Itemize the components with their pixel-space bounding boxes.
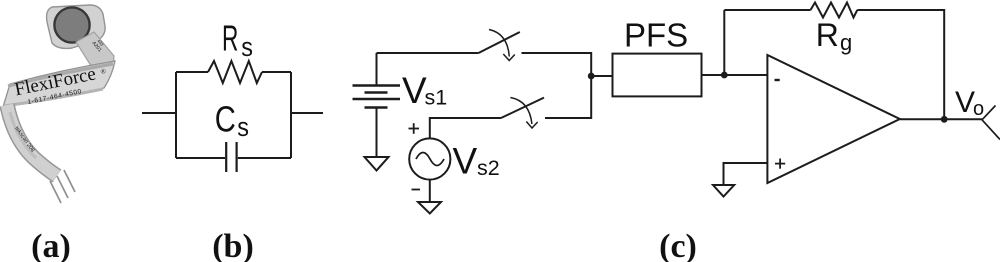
battery Vs1 [353,53,401,157]
capacitor Cs [226,142,236,172]
wire: PFS to op-amp inverting input [702,74,768,76]
svg-text:C: C [215,99,236,140]
sensor sensing disc [54,7,89,42]
svg-text:g: g [840,30,852,55]
wire: loop top-right segment [262,71,291,73]
wire: loop bottom-right segment [238,157,291,159]
label Cs [215,99,249,143]
wire: loop top-left segment [176,71,208,73]
sensor logo text FlexiForce [13,63,107,100]
wire: non-inverting input to ground [724,163,768,185]
wire: battery to switch S1 [377,52,479,54]
wire: output fork lower [982,120,1000,140]
label Vs2 [453,141,500,182]
sensor neck band with model text [76,32,114,69]
node: feedback tap [721,72,728,79]
svg-text:(b): (b) [212,228,254,262]
wire: switch S1 to junction [522,53,592,76]
wire: feedback top left segment [724,9,810,11]
svg-text:(a): (a) [31,228,71,262]
ground at non-inverting input [713,185,734,197]
svg-text:o: o [973,98,984,120]
sensor phone text [27,88,83,106]
label Vs1 [402,70,447,111]
wire: loop right side [290,72,292,158]
AC source Vs2 [409,138,450,179]
wire: left lead of sensor model (b) [142,112,176,114]
label Vo [955,86,984,120]
svg-text:s: s [237,114,249,142]
wire: Vs2 top to switch S2 [430,118,501,138]
svg-text:V: V [955,86,975,119]
wire: output fork upper [982,106,996,120]
op-amp inverting mark [775,79,780,81]
wire: op-amp output [900,118,982,120]
resistor Rg [811,3,858,18]
minus polarity of Vs2 [412,189,421,191]
switch S2 blade [501,98,544,118]
ground under Vs2 [418,202,441,214]
wire: Vs2 bottom [429,180,431,202]
node: output junction [941,116,948,123]
svg-text:PFS: PFS [624,17,688,54]
wire: feedback top right segment and down [857,10,944,119]
node: sources junction [588,73,595,80]
wire: feedback up [723,10,725,75]
wire: switch S2 to junction [545,76,591,118]
wire: junction to PFS [591,75,612,77]
sensor pins [50,170,75,203]
resistor Rs [208,61,262,83]
svg-text:V: V [402,70,427,111]
sensor lower ribbon [7,105,57,176]
plus polarity of Vs2 [409,123,420,134]
wire: loop left side [175,72,177,158]
svg-text:R: R [816,17,839,53]
switch S1 blade [479,32,520,53]
svg-text:s2: s2 [477,156,500,180]
svg-text:V: V [453,141,478,182]
svg-text:R: R [222,19,238,58]
label Rg [816,17,852,55]
sensor photo (a): FlexiForce sensor head tab [47,5,106,48]
op-amp U1 [767,55,899,183]
sensor film band with logo [3,61,115,107]
wire: loop bottom-left segment [176,157,225,159]
svg-text:(c): (c) [659,228,697,262]
ground under battery [365,157,389,171]
svg-text:s1: s1 [425,86,448,110]
op-amp non-inverting mark [775,159,785,169]
block PFS [613,54,702,97]
switch S2 actuation arrow [510,98,537,129]
switch S1 actuation arrow [489,30,515,61]
svg-text:s: s [241,34,253,62]
label Rs [222,19,253,62]
wire: right lead of sensor model (b) [291,112,323,114]
